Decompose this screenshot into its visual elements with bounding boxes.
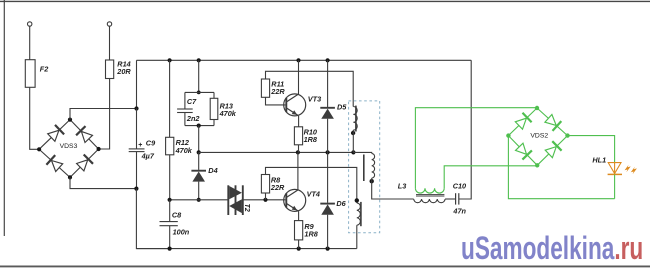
node bridge top bbox=[68, 118, 72, 122]
transformer winding III core bbox=[360, 202, 362, 226]
wire R11 top to winding I bbox=[266, 71, 354, 106]
wire bridge bottom to C9 column bbox=[70, 177, 136, 188]
svg-text:2n2: 2n2 bbox=[186, 114, 200, 123]
bridge VDS2 diode lower-right bbox=[545, 147, 556, 158]
svg-text:47n: 47n bbox=[452, 207, 466, 216]
wire R10 to node bbox=[298, 145, 300, 153]
wire C8 to bottom rail bbox=[169, 226, 171, 249]
transformer winding III bbox=[357, 203, 361, 225]
node C8 top bbox=[168, 198, 172, 202]
node bridge left bbox=[37, 147, 41, 151]
svg-text:C7: C7 bbox=[187, 97, 197, 106]
svg-text:D4: D4 bbox=[208, 166, 217, 175]
resistor R10 bbox=[294, 127, 302, 145]
bridge VDS2 diode lower-left bbox=[516, 143, 527, 154]
wire R13 top lead bbox=[213, 92, 215, 98]
wire D4 to midrail bbox=[198, 182, 200, 200]
wire bottom rail bbox=[136, 248, 356, 250]
transformer winding II polarity dot bbox=[370, 179, 374, 183]
wire VDS2 right to HL1 bbox=[568, 136, 615, 163]
node R8 bottom bbox=[263, 198, 267, 202]
wire R9 to bottom rail bbox=[298, 240, 300, 249]
wire C7R13 bottom stub bbox=[185, 125, 214, 127]
resistor R9 bbox=[295, 221, 303, 240]
node C9 top bbox=[134, 106, 138, 110]
node D4 top wire bbox=[197, 150, 201, 154]
transformer winding I bbox=[353, 107, 357, 131]
transformer winding III polarity dot bbox=[355, 198, 359, 202]
wire L3 to C10 bbox=[445, 198, 456, 200]
node D5 D6 junction bbox=[326, 150, 330, 154]
svg-text:D5: D5 bbox=[337, 103, 347, 112]
node bottom rail C8 bbox=[168, 247, 172, 251]
svg-text:470k: 470k bbox=[219, 109, 237, 118]
led HL1 arrows bbox=[625, 165, 631, 173]
wire R11 to VT3 base bbox=[266, 97, 286, 105]
transformer winding I core bbox=[355, 106, 357, 132]
wire C9 column to bottom rail bbox=[136, 189, 169, 249]
transistor VT3 bbox=[284, 94, 306, 116]
svg-text:20R: 20R bbox=[116, 67, 131, 76]
wire C10 to right side bbox=[459, 60, 471, 199]
transistor VT4 bbox=[284, 189, 306, 211]
resistor R14 bbox=[106, 60, 114, 79]
wire D6 to bottom rail bbox=[327, 215, 329, 249]
bridge VDS3 diode lower-left bbox=[52, 161, 63, 172]
wire VDS2 left to bottom rail bbox=[508, 136, 614, 199]
wire node to winding II bbox=[353, 152, 371, 153]
wire node to VT4 collector bbox=[297, 152, 299, 189]
node VDS2 right bbox=[565, 133, 569, 137]
svg-text:22R: 22R bbox=[270, 183, 285, 192]
node C7R13 bottom bbox=[197, 124, 201, 128]
bridge VDS2 outline bbox=[508, 108, 567, 165]
terminal X1 bbox=[28, 22, 32, 26]
bridge VDS3 diode lower-right bbox=[77, 160, 88, 171]
node R10 bottom bbox=[296, 150, 300, 154]
led HL1 bbox=[614, 162, 616, 174]
wire green left lead to VDS2 top bbox=[415, 108, 537, 189]
svg-text:T2: T2 bbox=[243, 204, 250, 212]
node C9 bottom bbox=[134, 187, 138, 191]
wire winding I to node bbox=[352, 130, 354, 152]
svg-text:1R8: 1R8 bbox=[304, 135, 318, 144]
capacitor C10 plates bbox=[455, 193, 457, 204]
transformer winding II bbox=[372, 153, 375, 178]
node rail C7R13 bbox=[197, 58, 201, 62]
wire VT3 emitter to R10 bbox=[298, 116, 300, 127]
wire mid rail right bbox=[243, 199, 286, 201]
node VDS2 left bbox=[506, 133, 510, 137]
bridge VDS3 diode upper-right bbox=[81, 131, 92, 142]
svg-text:22R: 22R bbox=[270, 87, 285, 96]
svg-text:VT3: VT3 bbox=[308, 94, 321, 103]
wire R12 to midrail bbox=[169, 155, 171, 200]
wire winding II to L3 row bbox=[372, 178, 414, 199]
svg-text:C10: C10 bbox=[453, 182, 466, 191]
svg-text:VDS2: VDS2 bbox=[530, 132, 548, 139]
wire R14 to bridge right vertex bbox=[99, 79, 110, 150]
wire C9 column top bbox=[136, 60, 138, 108]
node rail D5 bbox=[326, 58, 330, 62]
fuse F2 bbox=[25, 60, 35, 88]
wire bridge top to C9 node bbox=[70, 109, 137, 120]
wire R8 to midrail bbox=[265, 193, 267, 200]
wire R8 top to winding III bbox=[266, 167, 357, 203]
node bottom rail D6 bbox=[326, 247, 330, 251]
node C7R13 top bbox=[197, 91, 201, 95]
wire HL1 to bottom bbox=[614, 174, 616, 198]
diac T2 right bar bbox=[242, 185, 244, 215]
capacitor C7 plates bbox=[177, 108, 193, 110]
wire junction to D6 bbox=[327, 152, 329, 202]
wire green right lead to VDS2 bottom bbox=[444, 166, 537, 189]
inductor L3 secondary winding bbox=[415, 188, 444, 193]
svg-text:F2: F2 bbox=[40, 65, 49, 74]
wire C9 to lower node bbox=[136, 152, 138, 189]
svg-text:C9: C9 bbox=[146, 139, 156, 148]
resistor R12 bbox=[166, 137, 174, 155]
svg-text:VT4: VT4 bbox=[307, 190, 320, 199]
diode D6 bbox=[320, 203, 335, 205]
node rail R12 bbox=[168, 58, 172, 62]
diode D5 bbox=[320, 107, 335, 109]
wire rail to VT3 collector bbox=[298, 60, 300, 94]
wire top rail bbox=[137, 59, 472, 61]
wire rail to D5 bbox=[327, 60, 329, 107]
resistor R11 bbox=[261, 79, 269, 97]
diac T2 lower triangle bbox=[229, 199, 242, 213]
capacitor C8 plates bbox=[160, 221, 178, 223]
bridge VDS3 outline bbox=[39, 120, 99, 178]
wire mid rail left bbox=[170, 199, 229, 201]
svg-text:100n: 100n bbox=[173, 228, 190, 237]
wire F2 to bridge left vertex bbox=[30, 87, 39, 149]
wire base drive VT3 row bbox=[199, 151, 354, 153]
terminal X2 bbox=[107, 22, 111, 26]
wire D5 to junction bbox=[327, 119, 329, 153]
svg-text:470k: 470k bbox=[175, 146, 193, 155]
wire winding III to bottom rail bbox=[356, 225, 358, 248]
node VDS2 top bbox=[535, 106, 539, 110]
wire midrail to C8 bbox=[169, 200, 171, 222]
svg-text:1R8: 1R8 bbox=[304, 229, 318, 238]
wire C7 top lead bbox=[184, 92, 186, 109]
svg-text:C8: C8 bbox=[172, 211, 182, 220]
resistor R8 bbox=[261, 175, 269, 194]
diode D4 bbox=[191, 170, 206, 172]
wire C7R13 to D4 node bbox=[198, 126, 200, 153]
transformer T1 box bbox=[349, 101, 380, 233]
node bottom rail R9 bbox=[297, 247, 301, 251]
wire C7 bottom lead bbox=[184, 113, 186, 126]
wire R13 bottom lead bbox=[213, 120, 215, 126]
node bridge right bbox=[97, 147, 101, 151]
wire rail to C7R13 stub bbox=[198, 60, 200, 92]
wire X2 to R14 bbox=[109, 26, 111, 60]
diac T2 middle bar bbox=[235, 185, 237, 215]
diac T2 left bar bbox=[227, 185, 229, 215]
inductor L3 primary bbox=[414, 199, 445, 203]
svg-text:uSamodelkina.ru: uSamodelkina.ru bbox=[461, 230, 643, 266]
transformer winding I polarity dot bbox=[351, 131, 355, 135]
wire X1 to F2 bbox=[29, 26, 31, 60]
wire D4 node to D4 bbox=[198, 152, 200, 170]
resistor R13 bbox=[210, 98, 218, 119]
bridge VDS2 diode upper-left bbox=[515, 118, 526, 129]
bridge VDS2 diode upper-right bbox=[545, 115, 556, 126]
svg-text:VDS3: VDS3 bbox=[60, 143, 78, 150]
wire C9 node to C9 bbox=[136, 109, 138, 149]
wire VT4 emitter to R9 bbox=[298, 211, 300, 220]
svg-text:L3: L3 bbox=[398, 182, 407, 191]
node bridge bottom bbox=[68, 175, 72, 179]
diac T2 upper triangle bbox=[229, 186, 242, 199]
capacitor C9 plates bbox=[129, 148, 145, 150]
wire rail to R12 bbox=[169, 60, 171, 137]
svg-text:+: + bbox=[138, 142, 142, 149]
transformer winding II core bbox=[363, 155, 365, 182]
node VDS2 bottom bbox=[535, 163, 539, 167]
svg-text:D6: D6 bbox=[336, 199, 346, 208]
node winding I bottom bbox=[351, 150, 355, 154]
bridge VDS3 diode upper-left bbox=[48, 130, 59, 141]
inductor L3 core bbox=[416, 193, 444, 195]
svg-text:4µ7: 4µ7 bbox=[141, 151, 155, 160]
node rail VT3 bbox=[296, 58, 300, 62]
wire C7R13 top stub bbox=[185, 91, 214, 93]
node D4 midrail bbox=[197, 198, 201, 202]
svg-text:HL1: HL1 bbox=[592, 156, 606, 165]
